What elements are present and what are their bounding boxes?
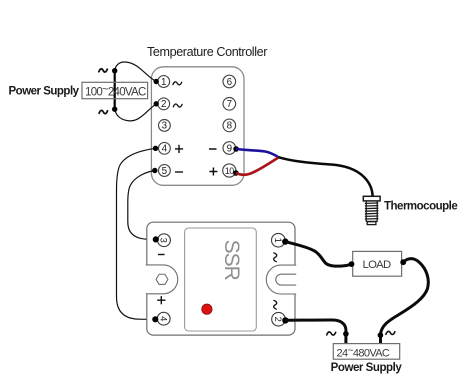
temperature controller body <box>151 67 244 186</box>
SSR terminal 3 <box>158 234 171 247</box>
node dot LOAD right <box>400 259 406 265</box>
wire: controller terminal 5 to SSR terminal 3 <box>128 171 156 240</box>
SSR terminal 2 <box>272 312 286 326</box>
terminal 1 <box>158 76 170 88</box>
terminal 7 <box>223 98 236 111</box>
SSR label <box>220 240 243 281</box>
wire SSR terminal 2 to AC source <box>285 320 346 344</box>
svg-text:5: 5 <box>162 166 168 177</box>
svg-text:7: 7 <box>227 99 232 110</box>
node dot terminal 9 <box>233 146 239 152</box>
SSR terminal 4 <box>157 312 170 325</box>
terminal 9 <box>223 142 236 155</box>
wire: bottom AC node to terminal 2 <box>115 104 157 121</box>
wire LOAD to AC source <box>381 259 429 344</box>
plus mark terminal 4 <box>175 145 183 153</box>
node dot terminal 10 <box>233 170 239 176</box>
svg-text:3: 3 <box>162 121 168 132</box>
minus mark terminal 5 <box>175 171 183 173</box>
terminal 8 <box>223 119 236 132</box>
blue thermocouple wire from terminal 9 <box>236 149 278 157</box>
node dot AC top <box>112 68 117 73</box>
node dot SSR terminal 3 <box>153 236 159 242</box>
SSR hex nut <box>156 274 168 284</box>
thermocouple head <box>363 196 380 201</box>
red thermocouple wire from terminal 10 <box>236 157 279 174</box>
SSR LED <box>202 304 212 314</box>
svg-text:1: 1 <box>161 77 166 88</box>
svg-text:Thermocouple: Thermocouple <box>384 201 457 213</box>
svg-text:Power Supply: Power Supply <box>9 86 80 98</box>
AC mark bottom right <box>386 331 395 334</box>
svg-text:4: 4 <box>158 316 169 321</box>
SSR AC mark top (rotated) <box>274 253 277 262</box>
SSR terminal 1 <box>272 233 286 247</box>
node dot terminal 1 <box>154 79 159 84</box>
minus mark terminal 9 <box>209 148 217 150</box>
AC mark bottom left <box>327 332 336 335</box>
svg-text:6: 6 <box>227 77 233 88</box>
svg-text:8: 8 <box>227 121 233 132</box>
LOAD box <box>353 251 402 276</box>
node dot LOAD left <box>349 261 355 267</box>
wire SSR terminal 1 to LOAD <box>285 242 351 267</box>
AC source box 24-480VAC <box>333 344 399 360</box>
SSR AC mark bottom (rotated) <box>274 300 277 309</box>
thermocouple threaded shaft <box>365 201 379 222</box>
thermocouple tip <box>367 222 376 225</box>
AC mark beside terminal 1 <box>173 82 182 85</box>
SSR minus mark <box>158 254 165 256</box>
svg-text:9: 9 <box>227 143 232 154</box>
thermocouple lead wire <box>279 157 373 196</box>
node dot terminal 4 <box>153 146 158 151</box>
svg-text:24~480VAC: 24~480VAC <box>337 345 390 360</box>
SSR mounting hole left <box>146 265 178 294</box>
wire: top AC node to terminal 1 <box>115 62 157 82</box>
terminal 3 <box>159 120 171 132</box>
AC source box 100-240VAC <box>82 82 148 98</box>
SSR mounting slot right <box>266 265 296 294</box>
node dot terminal 5 <box>152 168 157 173</box>
node dot AC source left <box>343 331 349 337</box>
wire: controller terminal 4 to SSR terminal 4 <box>117 148 156 319</box>
node dot AC bottom <box>112 107 117 112</box>
SSR plus mark <box>157 296 165 304</box>
SSR inner panel <box>185 228 257 331</box>
SSR body <box>147 222 295 335</box>
terminal 10 <box>223 164 236 177</box>
svg-text:Temperature Controller: Temperature Controller <box>147 45 267 59</box>
terminal 4 <box>159 142 171 154</box>
AC mark bottom <box>99 110 107 113</box>
node dot SSR terminal 1 <box>282 238 288 244</box>
terminal 5 <box>159 165 171 177</box>
svg-text:3: 3 <box>159 238 170 243</box>
node dot terminal 2 <box>154 101 159 106</box>
node dot SSR terminal 4 <box>152 316 158 322</box>
svg-text:Power Supply: Power Supply <box>331 362 403 374</box>
svg-text:LOAD: LOAD <box>363 259 392 271</box>
terminal 6 <box>223 75 236 88</box>
svg-text:2: 2 <box>161 99 166 110</box>
node dot SSR terminal 2 <box>282 317 288 323</box>
plus mark terminal 10 <box>209 168 217 176</box>
svg-text:10: 10 <box>225 166 234 176</box>
svg-text:SSR: SSR <box>220 240 243 281</box>
svg-text:100~240VAC: 100~240VAC <box>85 84 146 99</box>
AC feed vertical wire <box>114 71 116 110</box>
AC mark beside terminal 2 <box>173 104 182 107</box>
node dot AC source right <box>378 332 384 338</box>
svg-text:4: 4 <box>162 144 168 155</box>
terminal 2 <box>158 98 170 110</box>
AC mark top <box>99 69 107 72</box>
